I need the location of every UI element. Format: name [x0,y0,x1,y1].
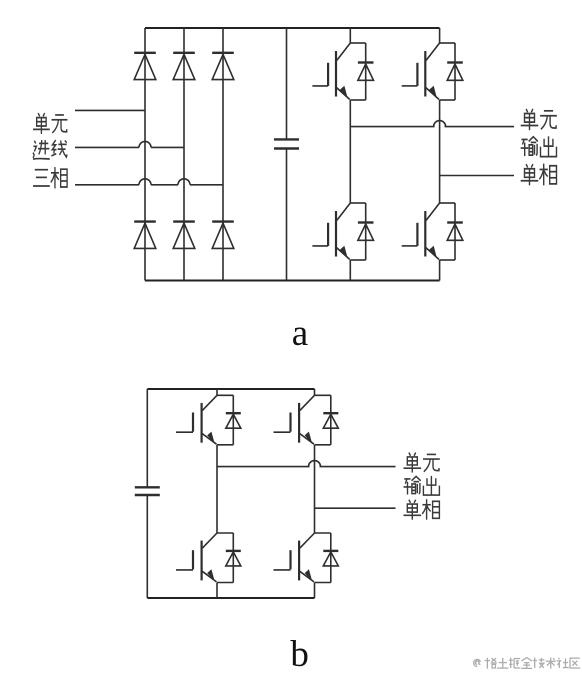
svg-text:a: a [292,313,308,354]
svg-text:b: b [290,634,309,675]
